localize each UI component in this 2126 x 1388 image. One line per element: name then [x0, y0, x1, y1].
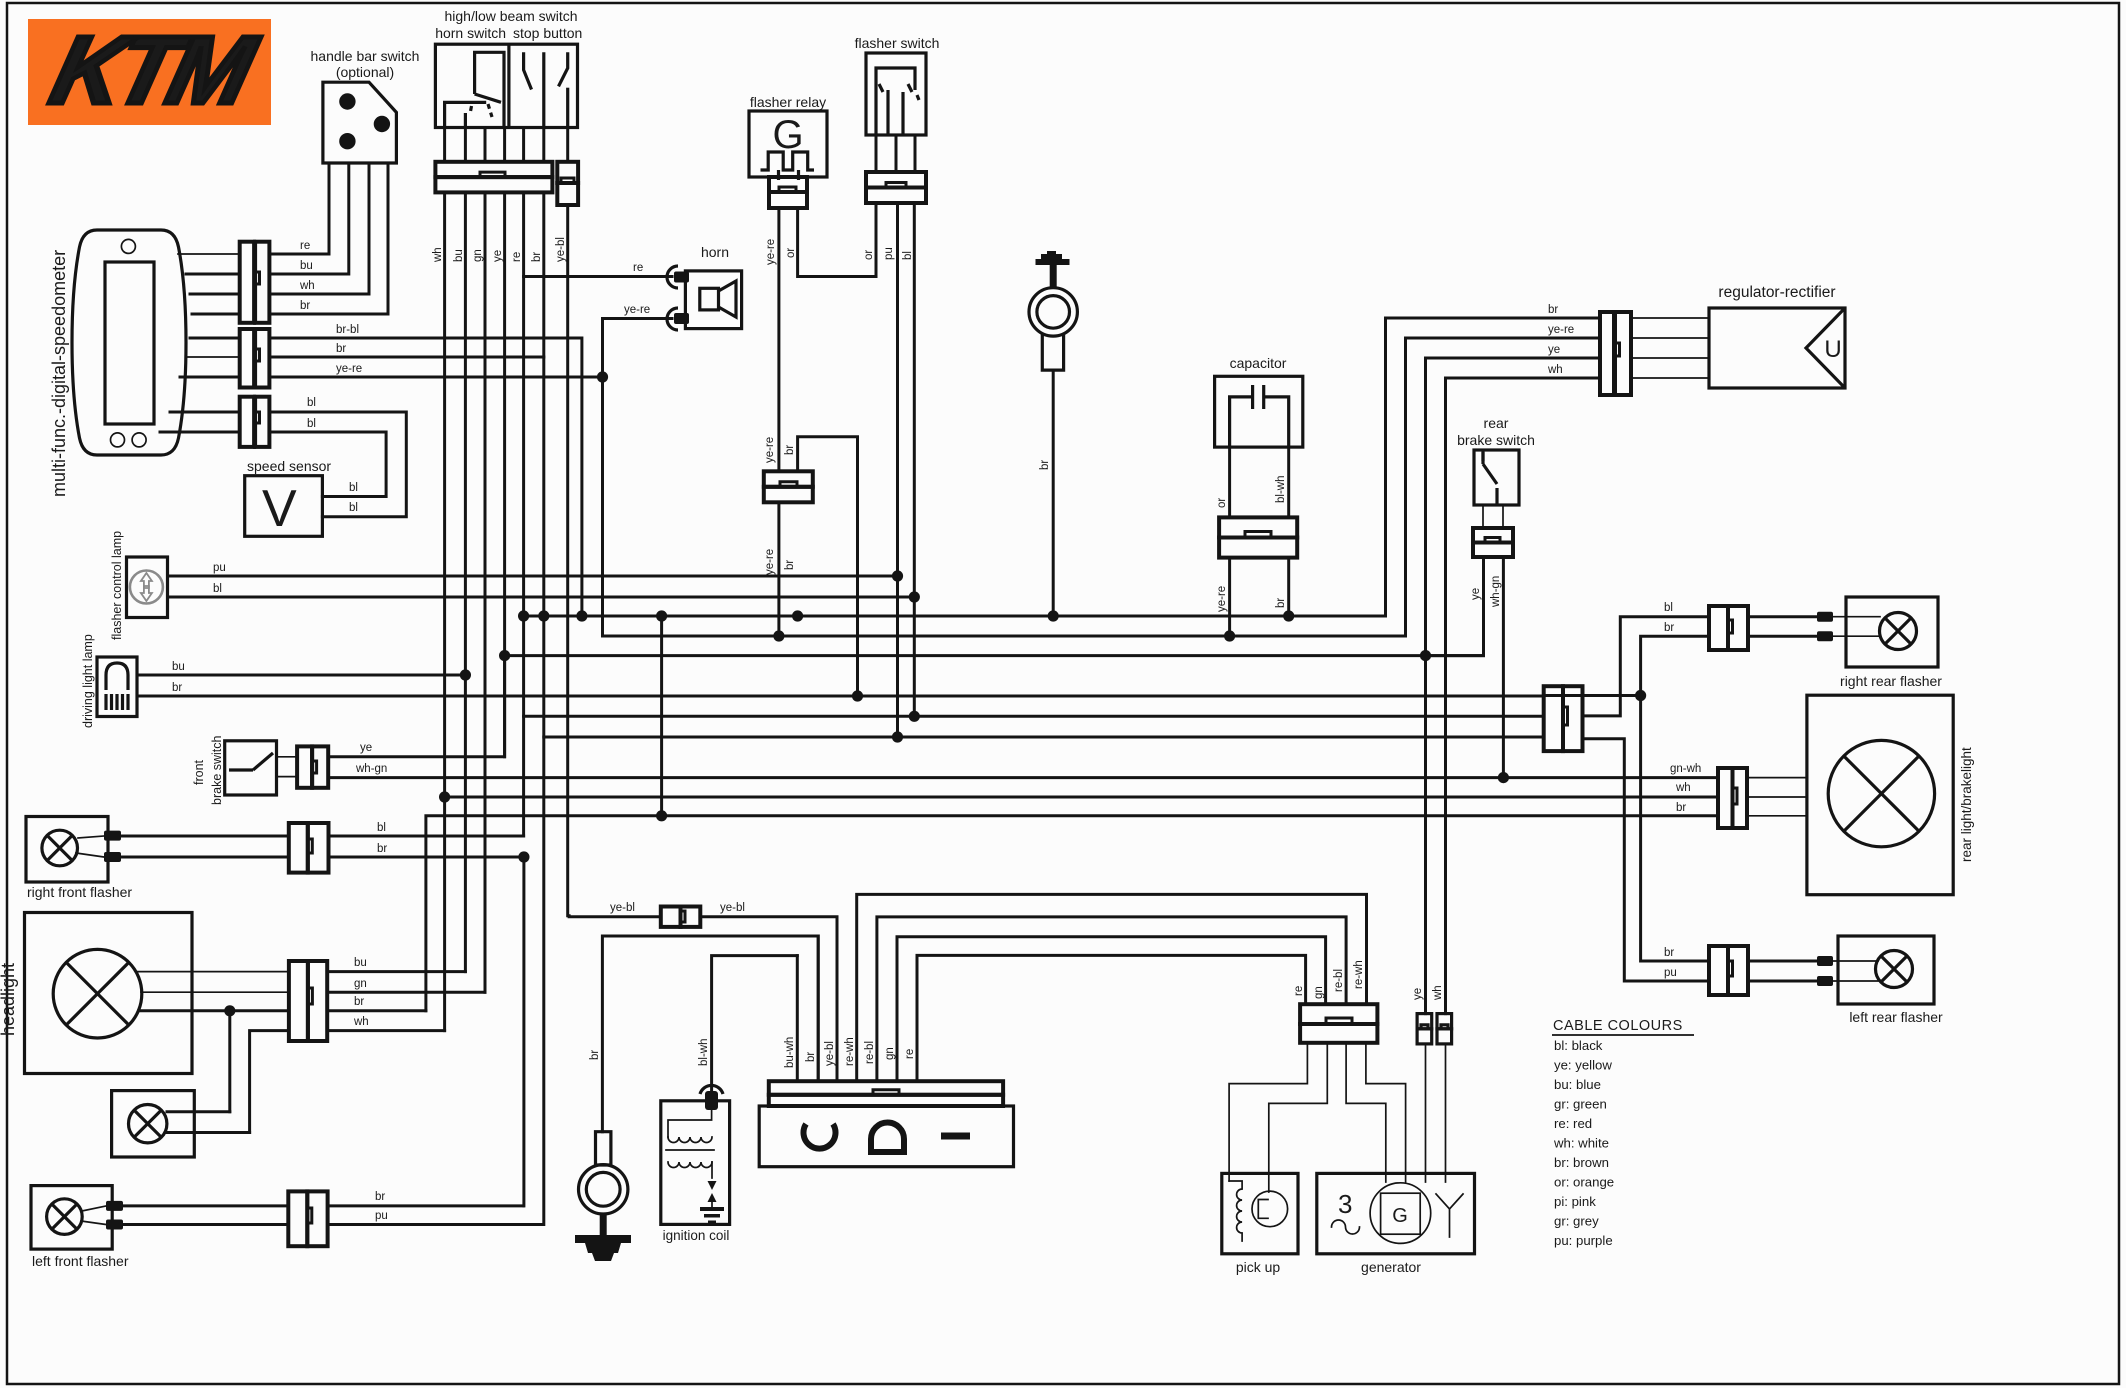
left rear flasher pin pu — [1817, 976, 1833, 986]
flasher control lamp down arrow — [141, 586, 152, 601]
junction dot br driving light at link — [852, 690, 863, 701]
wire CDI pin re-bl — [877, 917, 1346, 1081]
wire lf pu right to vertical — [328, 1223, 543, 1226]
svg-text:br: br — [805, 1052, 817, 1062]
wire gen pin re-wh to generator — [1366, 1043, 1406, 1182]
wire parking lamp lower — [167, 1131, 250, 1134]
ignition coil primary lead — [668, 1110, 712, 1137]
wire re vertical bus — [522, 192, 525, 836]
svg-text:br: br — [1275, 598, 1287, 608]
wire CDI pin br — [817, 936, 820, 1081]
svg-text:gn: gn — [1313, 986, 1325, 999]
svg-text:ye-re: ye-re — [764, 437, 776, 463]
horn switch contact bar — [445, 102, 487, 127]
mid right 3-pole connector — [1544, 686, 1583, 751]
left front flasher pin pu — [106, 1220, 123, 1230]
right rear flasher pin bl — [1817, 612, 1833, 622]
svg-text:bl: bl — [213, 583, 222, 595]
right front flasher lamp — [42, 830, 78, 866]
svg-text:bl-wh: bl-wh — [1275, 476, 1287, 503]
handle bar switch contact dot 2 — [374, 116, 390, 132]
svg-text:bl: bl — [349, 482, 358, 494]
svg-text:capacitor: capacitor — [1230, 355, 1287, 371]
wire connector1 bu to handlebar switch — [269, 163, 348, 274]
svg-text:br: br — [172, 682, 182, 694]
left front flasher pin br — [106, 1201, 123, 1211]
thin link rear brake box to connector wh-gn — [1502, 505, 1504, 528]
svg-text:br: br — [377, 843, 387, 855]
svg-text:bl: bl — [307, 418, 316, 430]
wire capacitor or to connector — [1228, 447, 1231, 517]
wire br link bus to rear line — [660, 616, 663, 816]
speedometer display window — [105, 262, 154, 424]
svg-text:br: br — [375, 1191, 385, 1203]
svg-text:ye-re: ye-re — [624, 304, 650, 316]
wire CDI pin bu-wh — [796, 956, 799, 1082]
svg-text:bl: bl — [307, 397, 316, 409]
left rear flasher box — [1838, 936, 1934, 1004]
svg-text:br: br — [784, 560, 796, 570]
wire pu link from connector pin3 down to lr flasher — [1583, 739, 1709, 981]
wire wh into generator — [1445, 1044, 1447, 1182]
ignition key ring terminal cap — [1036, 251, 1070, 265]
svg-text:gr: green: gr: green — [1554, 1097, 1607, 1112]
wire regulator ye — [1426, 358, 1601, 1014]
right rear flasher lamp — [1880, 613, 1917, 650]
flasher relay pulse waveform symbol — [761, 152, 815, 180]
svg-text:wh-gn: wh-gn — [1490, 576, 1502, 608]
KTM logo letters — [42, 16, 266, 123]
wire capacitor br to bus — [1287, 558, 1290, 616]
wire CDI pin re — [917, 955, 1306, 1081]
wire rf br to connector — [121, 856, 289, 859]
svg-text:ye-bl: ye-bl — [720, 902, 745, 914]
svg-text:pu: pu — [883, 247, 895, 260]
capacitor symbol plates — [1253, 385, 1264, 409]
ignition coil secondary winding — [668, 1162, 712, 1168]
svg-text:bl-wh: bl-wh — [698, 1039, 710, 1066]
svg-text:brake switch: brake switch — [1457, 432, 1535, 448]
svg-text:horn: horn — [701, 244, 729, 260]
wire connector1 re to handlebar switch — [269, 163, 329, 254]
flasher switch contact post 2 — [901, 92, 904, 135]
wire lf br to connector — [123, 1204, 288, 1207]
wire switch re into connector — [522, 128, 525, 162]
wire gn vertical bus — [484, 192, 487, 992]
wire front brake wh-gn long — [328, 776, 1718, 779]
speedometer screw hole bottom-right — [132, 433, 146, 447]
wire speedometer to connector3 pin bl1 — [170, 411, 240, 414]
svg-text:re: re — [904, 1049, 916, 1059]
flasher switch dashes — [879, 84, 919, 100]
svg-text:right front flasher: right front flasher — [27, 884, 132, 900]
right front flasher pin bl — [104, 831, 121, 841]
regulator-rectifier box — [1709, 308, 1845, 388]
svg-text:re: re — [1293, 986, 1305, 996]
wire gen pin re-bl to generator — [1346, 1043, 1386, 1182]
wire or link relay to flasher switch — [798, 203, 876, 277]
svg-text:br: br — [300, 300, 310, 312]
right front flasher box — [26, 817, 108, 883]
wire rf bl to re-vertical — [329, 835, 524, 838]
svg-text:pu: pu — [375, 1210, 388, 1222]
svg-text:pi: pink: pi: pink — [1554, 1194, 1596, 1209]
front brake switch contact — [229, 753, 273, 770]
ignition coil core line — [666, 1149, 714, 1151]
ignition coil secondary lead — [711, 1162, 713, 1178]
capacitor symbol lead right — [1264, 397, 1289, 447]
wire br from key to bus — [1052, 370, 1055, 616]
svg-text:ye-re: ye-re — [1216, 586, 1228, 612]
svg-text:br: br — [1664, 947, 1674, 959]
svg-text:ye-bl: ye-bl — [555, 237, 567, 262]
wire headlight gn right — [327, 991, 485, 994]
driving light lamp box — [97, 657, 137, 717]
wire ye-bl line left segment — [569, 915, 661, 918]
thin wire headlight gn to connector — [141, 991, 289, 993]
capacitor symbol leads — [1230, 397, 1253, 447]
handle bar switch body — [323, 82, 397, 163]
speedometer screw hole bottom-left — [111, 433, 125, 447]
ground ring terminal stem — [596, 1132, 611, 1165]
speed sensor box — [245, 476, 323, 537]
wire br vertical down to lr flasher — [1641, 696, 1709, 962]
junction dot ye-re speedo — [597, 371, 608, 382]
wire speedometer to connector2 pin ye-re — [180, 376, 240, 379]
svg-text:or: or — [785, 248, 797, 258]
wire flasher switch pu into connector — [895, 135, 898, 172]
svg-text:ye-bl: ye-bl — [610, 902, 635, 914]
wire ye-bl vertical — [568, 205, 569, 916]
rear light box — [1807, 695, 1953, 895]
wire headlight br right — [327, 1009, 426, 1012]
svg-text:rear: rear — [1484, 415, 1509, 431]
wire flasher control pu — [168, 575, 898, 578]
ground symbol bars — [575, 1235, 631, 1261]
svg-text:br: br — [1548, 304, 1558, 316]
rear brake switch box — [1474, 450, 1519, 505]
svg-text:rear light/brakelight: rear light/brakelight — [1959, 747, 1974, 862]
wire lr pu connector to pin — [1748, 980, 1817, 983]
speedometer connector 3 (2-pole) — [240, 397, 270, 447]
thin link rf br pin to lamp — [76, 853, 104, 857]
wire br to rr flasher — [1641, 636, 1709, 695]
wire bu vertical bus — [464, 192, 467, 971]
junction dot ye bus at regulator — [1420, 650, 1431, 661]
svg-text:left front flasher: left front flasher — [32, 1253, 129, 1269]
thin link regulator connector to box pin4 — [1631, 377, 1709, 379]
junction dot bl line at pin2 wire — [909, 711, 920, 722]
rear light connector — [1718, 768, 1747, 828]
handlebar switch unit divider — [507, 44, 510, 127]
svg-text:bl: black: bl: black — [1554, 1038, 1603, 1053]
svg-text:re-wh: re-wh — [844, 1037, 856, 1066]
CDI letter D rotated — [871, 1123, 904, 1153]
svg-text:gn: gn — [472, 249, 484, 262]
wire switch wh into connector — [443, 128, 446, 162]
svg-text:flasher switch: flasher switch — [855, 35, 940, 51]
wire gen pin gn to pick up — [1269, 1043, 1328, 1192]
wire connector2 br-bl going right then down — [269, 338, 582, 616]
KTM logo orange panel — [28, 19, 271, 125]
junction dot ye bus at switch — [499, 650, 510, 661]
wire bl pin2 line from re vertical — [524, 715, 1544, 718]
svg-text:generator: generator — [1361, 1259, 1421, 1275]
wire capacitor ye-re to bus — [1228, 558, 1231, 636]
handlebar switch connector block — [435, 162, 552, 193]
wire headlight br to connector with branch — [139, 1009, 289, 1012]
ignition coil HT cap arc — [700, 1085, 723, 1094]
thin link regulator connector to box pin3 — [1631, 357, 1709, 359]
wh inline connector — [1437, 1014, 1452, 1044]
headlight box — [25, 913, 193, 1074]
ignition coil spark gap arrows — [708, 1181, 717, 1202]
svg-text:brake switch: brake switch — [210, 735, 224, 805]
right front flasher pin br — [104, 852, 121, 862]
svg-text:horn switch: horn switch — [435, 25, 506, 41]
thin link front brake to connector 2 — [277, 776, 298, 778]
junction dot br at rr/lr vertical — [1635, 690, 1646, 701]
ye inline connector — [1417, 1014, 1432, 1044]
flasher switch inner frame — [876, 68, 915, 135]
headlight connector — [289, 961, 327, 1041]
svg-text:right rear flasher: right rear flasher — [1840, 673, 1942, 689]
horn switch contact stub — [464, 113, 467, 128]
svg-text:gn: gn — [884, 1047, 896, 1060]
svg-text:gr: grey: gr: grey — [1554, 1214, 1599, 1229]
pick up coil symbol — [1229, 1181, 1242, 1241]
wire parking lamp upper — [167, 1110, 230, 1113]
svg-text:re: re — [511, 252, 523, 262]
svg-text:wh: white: wh: white — [1553, 1136, 1609, 1151]
wire switch gn into connector — [484, 128, 487, 162]
ignition key ring outer — [1029, 288, 1077, 336]
thin wire headlight bu to connector — [136, 971, 289, 973]
wire switch ye into connector — [503, 128, 506, 162]
ignition coil ground — [700, 1207, 724, 1224]
svg-text:re: re — [300, 240, 310, 252]
rear brake connector — [1473, 528, 1513, 557]
svg-text:br: br — [589, 1050, 601, 1060]
svg-text:U: U — [1824, 336, 1841, 363]
handle bar switch contact dot 1 — [339, 93, 355, 109]
ye-bl inline connector — [661, 907, 701, 927]
horn terminal arc upper — [667, 266, 678, 288]
wire speedometer to connector2 pin br — [186, 356, 240, 358]
driving light lamp rays — [106, 694, 128, 710]
svg-text:bu: bu — [300, 260, 313, 272]
junction dot gn-wh at rear brake — [1498, 772, 1509, 783]
wire pu vertical flasher switch — [896, 203, 899, 737]
wire br link rf to lf — [522, 857, 525, 1206]
svg-text:flasher control lamp: flasher control lamp — [110, 531, 124, 640]
flasher switch connector — [866, 172, 926, 203]
svg-text:br-bl: br-bl — [336, 324, 359, 336]
handle bar switch contact dot 3 — [339, 133, 355, 149]
svg-text:pu: pu — [213, 562, 226, 574]
left rear flasher connector — [1709, 946, 1748, 995]
svg-text:re-bl: re-bl — [864, 1041, 876, 1064]
thin link lr pu pin to lamp — [1833, 980, 1878, 982]
wire flasher switch bl into connector — [914, 135, 917, 172]
svg-text:handle bar switch: handle bar switch — [311, 48, 420, 64]
flasher relay connector — [769, 177, 807, 208]
junction dot ye-re bus at relay — [773, 630, 784, 641]
ignition coil gap lead — [711, 1202, 713, 1207]
junction dot br bus at capacitor — [1283, 610, 1294, 621]
wire regulator br — [1386, 318, 1601, 616]
wire lr br connector to pin — [1748, 960, 1817, 963]
horn speaker trapezoid — [719, 281, 737, 317]
wire relay ye-re down to 2-pole connector — [777, 208, 780, 471]
svg-text:wh-gn: wh-gn — [355, 763, 387, 775]
wire speedometer to connector3 pin bl2 — [160, 431, 240, 434]
headlight lamp symbol — [53, 949, 142, 1038]
CDI letter I rotated — [941, 1133, 970, 1140]
svg-text:br: br — [1664, 622, 1674, 634]
wire re to horn — [524, 275, 672, 278]
ignition coil primary winding — [668, 1137, 712, 1143]
junction dot bl at flasher switch vertical — [909, 591, 920, 602]
wire br rear line — [426, 816, 1718, 1011]
stop button right post — [566, 88, 569, 128]
wire CDI pin re-wh — [857, 894, 1367, 1081]
wire ye-re vertical link — [601, 319, 604, 637]
svg-text:left rear flasher: left rear flasher — [1849, 1009, 1943, 1025]
horn terminal arc lower — [667, 308, 678, 330]
wire br from CDI to ring terminal — [602, 936, 818, 1132]
wire br bus horizontal — [524, 615, 1386, 618]
left rear flasher lamp — [1876, 951, 1913, 988]
svg-text:ye: ye — [1548, 344, 1560, 356]
horn switch dashed link 1 — [470, 106, 472, 114]
wire connector3 bl2 to speed sensor — [269, 432, 386, 497]
stop button mid contact — [542, 52, 545, 127]
generator 4-pole connector — [1300, 1004, 1377, 1043]
thin link rear light br to box — [1747, 815, 1807, 817]
wire rear brake wh-gn down — [1502, 557, 1505, 778]
thin link rear light wh to box — [1747, 796, 1807, 798]
rear light lamp — [1828, 740, 1934, 846]
regulator-rectifier triangle — [1806, 308, 1845, 388]
wire ye bus horizontal — [505, 654, 1484, 657]
wire gen pin re to pick up — [1229, 1043, 1307, 1181]
wire speedometer to connector1 pin wh — [190, 293, 240, 296]
ground ring lower stem — [600, 1214, 607, 1238]
wire ye-re to horn — [603, 317, 673, 320]
generator circle — [1370, 1183, 1431, 1244]
generator Y symbol — [1436, 1194, 1463, 1237]
svg-text:3: 3 — [1338, 1189, 1352, 1219]
svg-text:V: V — [262, 480, 297, 538]
pick up magnet notch — [1258, 1200, 1268, 1219]
pick up box — [1222, 1173, 1298, 1253]
flasher switch box — [866, 53, 926, 135]
high/low beam switch lever — [475, 94, 501, 102]
svg-text:wh: wh — [353, 1016, 369, 1028]
svg-text:driving light lamp: driving light lamp — [81, 634, 95, 728]
svg-text:or: or — [863, 250, 875, 260]
svg-text:G: G — [1392, 1205, 1408, 1227]
wire parking lamp link down from br — [228, 1011, 231, 1112]
svg-text:high/low beam switch: high/low beam switch — [444, 8, 577, 24]
junction dot br bus at re vertical — [518, 610, 529, 621]
wire capacitor bl-wh to connector — [1287, 447, 1290, 517]
svg-text:re-wh: re-wh — [1353, 960, 1365, 989]
svg-text:gn-wh: gn-wh — [1670, 763, 1701, 775]
wire lf pu to connector — [123, 1223, 288, 1226]
svg-text:bu: bu — [172, 661, 185, 673]
CDI letter C rotated — [804, 1124, 836, 1149]
junction dot br bus at rear link — [656, 610, 667, 621]
wire bl-wh from coil up to CDI bu-wh pin — [712, 956, 798, 1091]
junction dot br bus at br vertical — [538, 610, 549, 621]
wire wh pin left to parking lamp — [250, 1031, 289, 1133]
stop button right contact — [559, 52, 568, 86]
thin link regulator connector to box pin1 — [1631, 317, 1709, 319]
wire regulator wh — [1446, 378, 1601, 1014]
ignition key ring inner — [1037, 296, 1070, 329]
right rear flasher connector — [1709, 606, 1748, 650]
thin link regulator connector to box pin2 — [1631, 337, 1709, 339]
junction dot rf br at lf link — [518, 851, 529, 862]
wire wh long line to rear light — [445, 796, 1718, 799]
svg-text:ignition coil: ignition coil — [663, 1228, 730, 1243]
high/low beam switch internal contact frame — [475, 52, 504, 127]
wire driving light br long — [137, 695, 1544, 698]
svg-text:ye-re: ye-re — [336, 363, 362, 375]
svg-text:bl: bl — [377, 822, 386, 834]
cable colours underline — [1552, 1034, 1694, 1036]
thin link rf bl pin to lamp — [78, 836, 104, 838]
ground ring outer — [579, 1165, 628, 1214]
horn terminal pin lower — [674, 313, 689, 324]
wire ye-bl line right segment down to CDI — [700, 917, 837, 1081]
svg-text:ye: ye — [1470, 588, 1482, 600]
ignition key shank — [1042, 334, 1063, 371]
wire lf br right to vertical — [328, 1204, 524, 1207]
rear brake switch lever — [1483, 452, 1497, 505]
svg-text:multi-func.-digital-speedomete: multi-func.-digital-speedometer — [49, 250, 69, 497]
wire headlight bu right — [327, 970, 465, 973]
flasher control lamp box — [127, 557, 168, 618]
wire rr flasher bl connector to pin — [1748, 615, 1817, 618]
capacitor box — [1215, 376, 1303, 447]
svg-text:bu: bu — [453, 249, 465, 262]
wire rf bl to connector — [121, 835, 289, 838]
wire ye-re bus horizontal — [603, 635, 1406, 638]
junction dot br rear line at link — [656, 810, 667, 821]
parking lamp box — [112, 1091, 195, 1157]
left front flasher lamp — [47, 1199, 83, 1235]
right rear flasher box — [1846, 597, 1938, 667]
front brake connector — [297, 746, 328, 787]
junction dot ye-re bus at capacitor — [1224, 630, 1235, 641]
junction dot br bus at mid connector — [792, 610, 803, 621]
wire speedometer to connector1 pin br — [192, 313, 240, 316]
wire headlight wh right — [327, 1029, 444, 1032]
svg-text:wh: wh — [1547, 364, 1563, 376]
svg-text:pu: purple: pu: purple — [1554, 1233, 1613, 1248]
wire driving light bu — [137, 674, 465, 677]
svg-text:speed sensor: speed sensor — [247, 458, 331, 474]
svg-text:ye-re: ye-re — [1548, 324, 1574, 336]
svg-text:pu: pu — [1664, 967, 1677, 979]
generator box — [1317, 1173, 1475, 1253]
svg-text:ye-bl: ye-bl — [824, 1041, 836, 1066]
svg-text:bu: bu — [354, 957, 367, 969]
thin link lf br pin to lamp — [82, 1206, 106, 1211]
